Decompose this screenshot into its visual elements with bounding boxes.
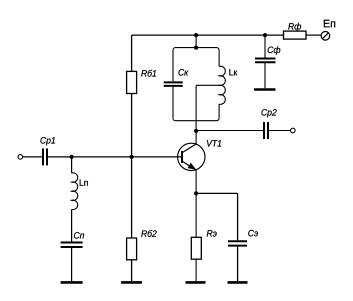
wire Сэ column upper — [237, 193, 239, 240]
label Ск — [178, 69, 188, 76]
node collector junction — [194, 129, 198, 133]
node base divider junction — [130, 155, 134, 159]
wire Ср1 to base — [48, 156, 182, 158]
wire Сп to ground — [71, 247, 73, 281]
wire junction down to Lп — [71, 157, 73, 173]
label Сэ — [248, 230, 258, 237]
label VT1 — [207, 140, 221, 146]
wire base node to Rб2 — [131, 157, 133, 238]
resistor Rб2 — [127, 238, 137, 260]
label Сп — [74, 232, 84, 239]
label Rб1 — [141, 70, 156, 77]
capacitor Сф — [255, 59, 276, 63]
wire collector — [195, 131, 197, 145]
wire tank right upper — [218, 50, 220, 66]
node tank top junction — [194, 46, 198, 50]
wire tank bottom rail — [173, 118, 219, 121]
wire input to Ср1 — [23, 156, 42, 158]
wire coil tap — [196, 84, 219, 86]
ground under Сф — [254, 88, 276, 91]
node tank rail junction — [194, 33, 198, 37]
wire Rф to Еп — [306, 34, 321, 36]
input terminal — [18, 155, 23, 160]
resistor Rб1 — [127, 71, 137, 93]
wire Сф to ground — [264, 62, 266, 88]
label Rб2 — [141, 230, 156, 237]
inductor Lп — [72, 173, 78, 210]
label Ср1 — [40, 137, 55, 145]
label Еп — [324, 20, 335, 28]
label Ср2 — [261, 109, 276, 117]
wire top rail — [132, 34, 284, 36]
capacitor Ск — [164, 82, 183, 86]
ground under Сп — [61, 281, 83, 284]
wire emitter node to Rэ — [195, 193, 197, 237]
wire tank left upper — [172, 50, 174, 81]
ground under Сэ — [228, 281, 248, 284]
wire emitter node to Сэ — [196, 192, 238, 194]
node emitter junction — [194, 191, 198, 195]
wire collector node to Ср2 — [196, 130, 263, 132]
wire Rб1 column from rail — [131, 35, 133, 71]
wire Rэ to ground — [195, 259, 197, 281]
wire Сэ to ground — [237, 246, 239, 282]
ground under Rб2 — [121, 281, 142, 284]
wire tank left lower — [172, 87, 174, 118]
wire emitter — [195, 170, 197, 193]
resistor Rэ — [191, 237, 201, 259]
wire rail to Сф — [264, 35, 266, 58]
ground under Rэ — [186, 281, 206, 284]
label Rф — [288, 23, 301, 32]
wire tank top rail — [173, 48, 219, 51]
capacitor Ср2 — [264, 122, 268, 139]
inductor Lк — [219, 66, 225, 104]
capacitor Ср1 — [43, 148, 47, 165]
wire Rб2 to ground — [131, 260, 133, 281]
wire Lп to Сп — [71, 209, 73, 241]
capacitor Сэ — [228, 241, 247, 245]
capacitor Сп — [61, 243, 83, 248]
node Сф rail junction — [263, 33, 267, 37]
output terminal — [291, 128, 296, 133]
resistor Rф — [284, 31, 307, 39]
label Сф — [268, 46, 281, 55]
terminal Еп supply — [321, 32, 330, 41]
transistor VT1 — [178, 143, 205, 170]
label Lп — [80, 179, 88, 185]
label Rэ — [207, 230, 217, 236]
wire Rб1 to base node — [131, 94, 133, 157]
wire rail to tank — [195, 35, 197, 48]
wire Ср2 to output — [269, 130, 291, 132]
node input branch junction — [70, 155, 74, 159]
label Lк — [229, 69, 237, 75]
wire tap stem — [195, 85, 197, 131]
wire tank right lower — [218, 104, 220, 118]
